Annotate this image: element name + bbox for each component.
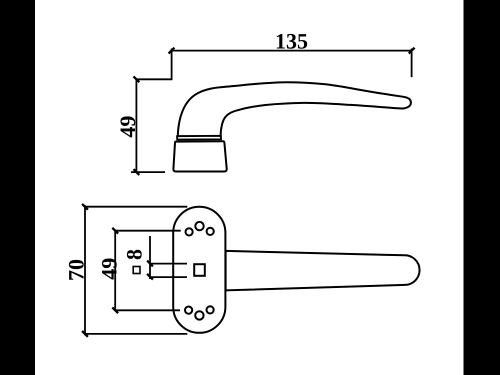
screw hole bottom-right — [207, 306, 214, 313]
right black bar — [464, 0, 500, 375]
tick bottom end of 70 — [82, 331, 88, 337]
screw hole bottom-middle — [195, 311, 203, 319]
tick left end of 135 — [169, 48, 175, 54]
extension line top of 8 — [150, 263, 187, 265]
extension line bottom of 49 — [115, 309, 180, 311]
extension line top of 49 — [115, 230, 181, 232]
dimension line 70 (vertical) — [84, 205, 86, 335]
left black bar — [0, 0, 35, 375]
screw hole bottom-left — [185, 307, 192, 314]
extension line bottom of 49 — [131, 171, 165, 173]
dimension line 49 (side view, vertical) — [135, 79, 137, 172]
tick top end of 49 — [112, 228, 118, 234]
tick bottom end of 8 — [147, 274, 153, 280]
svg-text:49: 49 — [115, 116, 140, 138]
screw hole top-right — [207, 228, 214, 235]
tick top end of 49 — [134, 76, 140, 82]
extension line left of 135 (vertical) — [171, 49, 173, 80]
screw hole top-middle — [195, 222, 203, 230]
svg-text:135: 135 — [275, 28, 308, 53]
svg-text:70: 70 — [63, 259, 88, 281]
extension line top of 70 — [85, 206, 187, 208]
svg-text:49: 49 — [96, 258, 121, 280]
base trapezoid (side view) — [173, 141, 226, 171]
tick bottom end of 49 — [134, 169, 140, 175]
square-section symbol for 8 — [133, 267, 140, 274]
collar band of base — [177, 136, 221, 140]
tick top end of 8 — [147, 261, 153, 267]
lever arm (top view) — [226, 251, 420, 291]
svg-text:8: 8 — [122, 249, 147, 260]
lever arm outline (side view) — [178, 82, 411, 136]
screw hole top-left — [186, 228, 193, 235]
rosette stadium plate — [173, 207, 225, 333]
extension line bottom of 70 — [85, 333, 187, 335]
extension line bottom of 8 — [150, 276, 187, 278]
tick bottom end of 49 — [112, 307, 118, 313]
dimension line 49 (top view, vertical) — [114, 231, 116, 311]
extension line top of 49 — [136, 78, 172, 80]
tick right end of 135 — [409, 48, 415, 54]
extension line right of 135 (vertical, above lever tip) — [411, 49, 413, 78]
tick top end of 70 — [82, 204, 88, 210]
square spindle hole 8mm — [194, 264, 205, 276]
dimension line 8 (vertical) — [149, 236, 151, 279]
dimension line 135 — [171, 50, 411, 52]
